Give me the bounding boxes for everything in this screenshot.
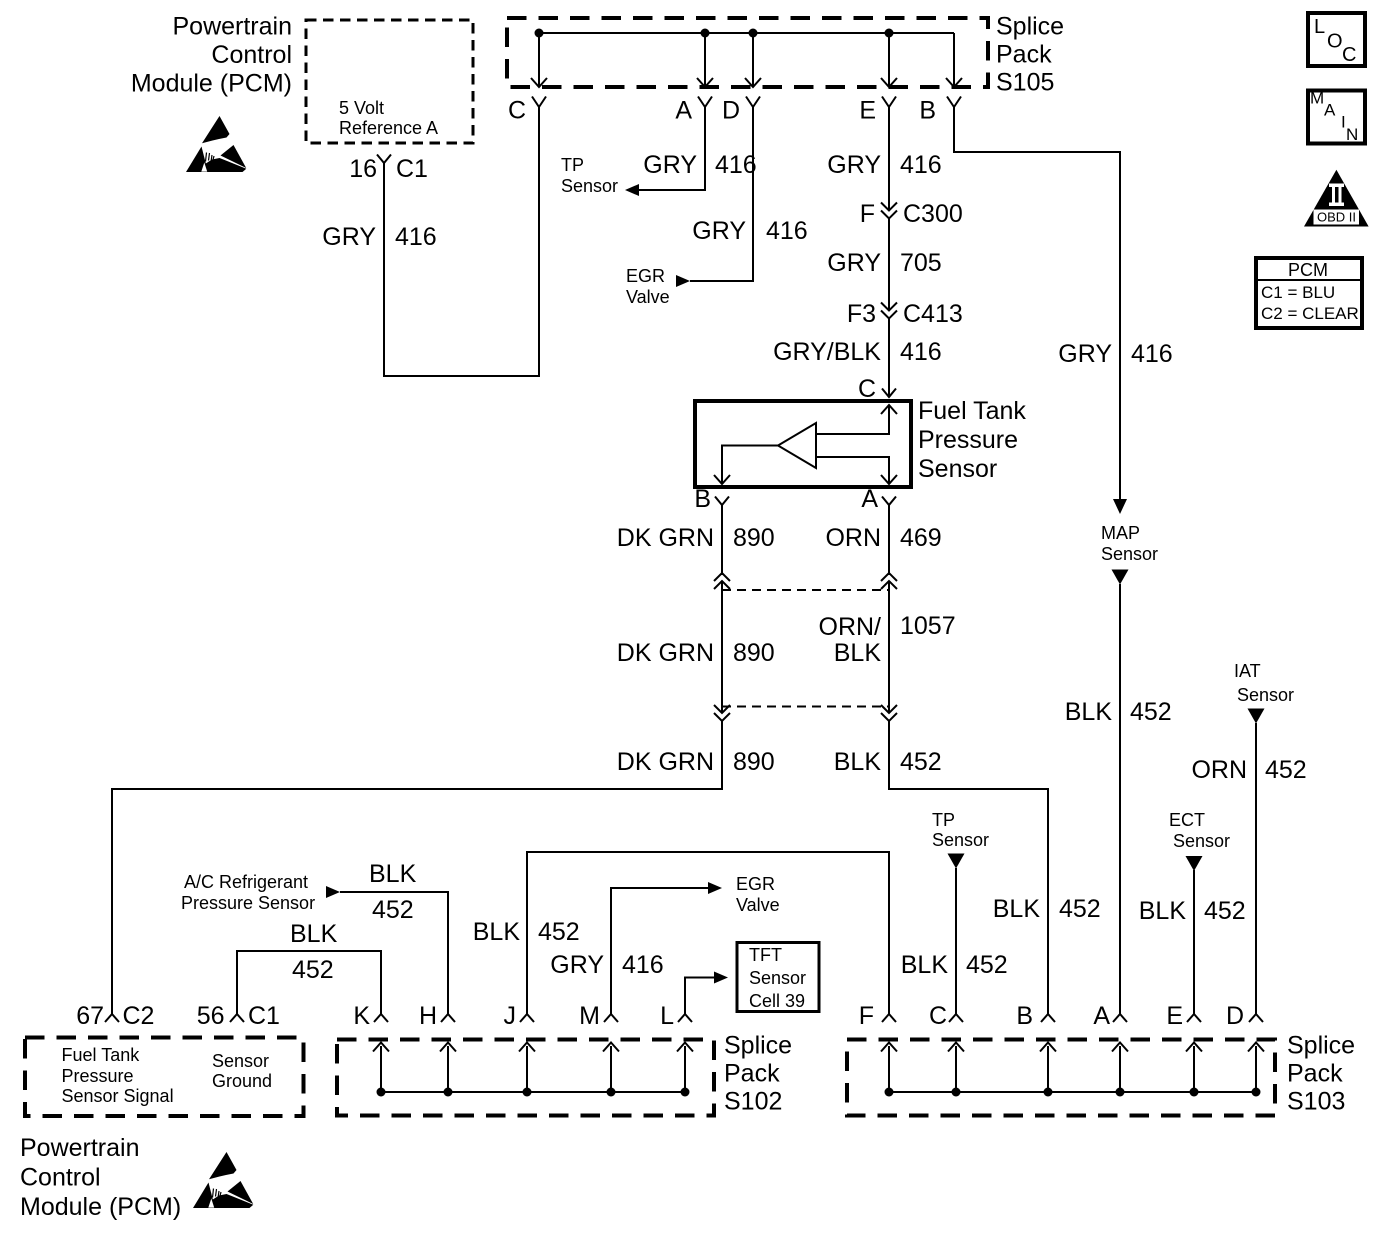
- svg-text:Powertrain: Powertrain: [20, 1134, 140, 1162]
- svg-text:Ground: Ground: [212, 1071, 272, 1091]
- svg-text:416: 416: [900, 338, 942, 366]
- svg-text:N: N: [1346, 125, 1358, 144]
- svg-text:452: 452: [1130, 698, 1172, 726]
- wire BLK 452 from S102 J to S103 F: [526, 851, 890, 1014]
- S102 pin M connector+letter: [579, 1002, 618, 1030]
- S103 junction dot D: [1252, 1088, 1261, 1097]
- module label: Powertrain Control Module (PCM) bottom: [20, 1134, 181, 1221]
- svg-text:O: O: [1327, 31, 1343, 53]
- label BLK 452 near S103 B: [993, 895, 1101, 923]
- wire GRY 705 from C300 to C413: [888, 218, 890, 311]
- svg-text:BLK: BLK: [1139, 897, 1187, 925]
- sensor internal wire to pin A: [816, 456, 897, 484]
- svg-text:5 Volt: 5 Volt: [339, 98, 384, 118]
- svg-text:705: 705: [900, 249, 942, 277]
- svg-text:Sensor: Sensor: [212, 1051, 269, 1071]
- svg-text:Pack: Pack: [1287, 1060, 1343, 1088]
- OBD II badge triangle: [1304, 170, 1369, 227]
- wire ORN 452 from IAT Sensor to S103 D: [1255, 723, 1257, 1014]
- svg-text:ORN: ORN: [825, 524, 881, 552]
- S103 junction dot E: [1190, 1088, 1199, 1097]
- svg-text:EGR: EGR: [736, 874, 775, 894]
- sensor internal amplifier triangle: [778, 423, 816, 468]
- svg-text:Control: Control: [211, 41, 292, 69]
- PCM 5 Volt Reference A dashed box: [306, 20, 473, 143]
- svg-text:BLK: BLK: [473, 918, 521, 946]
- S102 internal stem+arrow K: [373, 1043, 389, 1093]
- svg-text:D: D: [722, 97, 740, 125]
- svg-text:A: A: [675, 97, 692, 125]
- svg-text:E: E: [1166, 1002, 1183, 1030]
- svg-text:Sensor: Sensor: [1237, 685, 1294, 705]
- svg-text:C1: C1: [396, 155, 428, 183]
- label BLK 452 on TP ground wire: [901, 951, 1008, 979]
- PCM pin 16 C1 connector: [349, 155, 428, 184]
- ESD sensitive symbol (bottom PCM): [193, 1152, 253, 1208]
- svg-text:56: 56: [197, 1002, 225, 1030]
- svg-text:B: B: [1016, 1002, 1033, 1030]
- svg-text:C2 = CLEAR: C2 = CLEAR: [1261, 304, 1359, 323]
- label GRY 416 on S102 M wire: [550, 951, 663, 979]
- svg-text:416: 416: [1131, 340, 1173, 368]
- svg-text:Splice: Splice: [1287, 1032, 1355, 1060]
- svg-text:GRY: GRY: [827, 249, 881, 277]
- svg-text:Valve: Valve: [736, 895, 780, 915]
- label: EGR Valve (bottom): [736, 874, 780, 915]
- wire GRY 416 from S105 E to C300: [888, 107, 890, 210]
- svg-text:K: K: [353, 1002, 370, 1030]
- LOC badge box: [1308, 13, 1365, 66]
- S103 pin A connector+letter: [1093, 1002, 1127, 1030]
- S102 pin K connector+letter: [353, 1002, 388, 1030]
- S105 junction dot E: [885, 29, 894, 38]
- svg-text:TP: TP: [561, 155, 584, 175]
- svg-text:A/C Refrigerant: A/C Refrigerant: [184, 872, 308, 892]
- MAIN badge box: [1308, 89, 1365, 145]
- in-line connector C300 pin F: [860, 200, 963, 228]
- TFT Sensor Cell 39 box: [737, 943, 819, 1012]
- label BLK 452 on MAP ground wire: [1065, 698, 1172, 726]
- S105 pin C connector+letter: [508, 97, 546, 125]
- S102 pin H connector+letter: [419, 1002, 455, 1030]
- wire DK GRN 890 middle segment: [721, 581, 723, 713]
- svg-text:B: B: [694, 485, 711, 513]
- svg-text:Pack: Pack: [996, 41, 1052, 69]
- svg-text:Splice: Splice: [724, 1032, 792, 1060]
- svg-text:452: 452: [1059, 895, 1101, 923]
- svg-text:GRY: GRY: [692, 217, 746, 245]
- svg-text:Pressure: Pressure: [62, 1066, 134, 1086]
- label BLK 452 on S102 J wire: [473, 918, 580, 946]
- S102 junction dot J: [523, 1088, 532, 1097]
- svg-text:Sensor: Sensor: [932, 830, 989, 850]
- svg-text:469: 469: [900, 524, 942, 552]
- svg-text:Valve: Valve: [626, 287, 670, 307]
- svg-text:S102: S102: [724, 1088, 782, 1116]
- label GRY 705: [827, 249, 941, 277]
- wire DK GRN 890 to PCM 67 C2: [111, 721, 723, 1014]
- PCM pin 67 C2 connector: [76, 1002, 154, 1030]
- svg-text:A: A: [1324, 101, 1336, 120]
- svg-text:M: M: [1310, 89, 1324, 108]
- svg-text:BLK: BLK: [369, 860, 417, 888]
- svg-text:452: 452: [966, 951, 1008, 979]
- svg-text:1057: 1057: [900, 612, 956, 640]
- svg-text:Module (PCM): Module (PCM): [20, 1193, 181, 1221]
- module label: Powertrain Control Module (PCM) top: [131, 13, 292, 98]
- svg-text:Cell 39: Cell 39: [749, 991, 805, 1011]
- svg-text:Pressure Sensor: Pressure Sensor: [181, 893, 315, 913]
- svg-text:Sensor: Sensor: [561, 176, 618, 196]
- svg-text:BLK: BLK: [834, 748, 882, 776]
- S102 junction dot M: [607, 1088, 616, 1097]
- label BLK 452 on A/C wire: [369, 860, 417, 924]
- S105 junction dot D: [749, 29, 758, 38]
- svg-text:416: 416: [900, 151, 942, 179]
- S102 junction dot L: [681, 1088, 690, 1097]
- svg-text:L: L: [1314, 16, 1325, 38]
- svg-text:TP: TP: [932, 810, 955, 830]
- S105 junction dot C: [535, 29, 544, 38]
- svg-text:890: 890: [733, 748, 775, 776]
- svg-text:C: C: [929, 1002, 947, 1030]
- svg-text:C: C: [1342, 44, 1356, 66]
- svg-text:F3: F3: [847, 300, 876, 328]
- label ORN/BLK 1057: [819, 612, 956, 667]
- svg-text:GRY: GRY: [643, 151, 697, 179]
- svg-text:EGR: EGR: [626, 266, 665, 286]
- wire GRY 416 from S102 M to EGR Valve: [610, 888, 708, 1014]
- S103 internal stem+arrow F: [881, 1043, 897, 1093]
- wire GRY 416 from PCM 16 C1 to splice pack S105 C: [383, 107, 540, 377]
- svg-text:C: C: [508, 97, 526, 125]
- in-line connector pass-through on ORN/BLK wire (lower): [881, 705, 897, 713]
- S102 pin L connector+letter: [660, 1002, 692, 1030]
- S103 internal stem+arrow A: [1112, 1043, 1128, 1093]
- connector dashed link line (lower): [722, 706, 889, 708]
- arrow to TFT Sensor box: [714, 972, 728, 984]
- svg-text:Splice: Splice: [996, 13, 1064, 41]
- svg-text:F: F: [860, 200, 875, 228]
- S103 pin D connector+letter: [1226, 1002, 1263, 1030]
- svg-text:67: 67: [76, 1002, 104, 1030]
- S105 pin E connector+letter: [859, 97, 896, 125]
- svg-text:M: M: [579, 1002, 600, 1030]
- svg-text:F: F: [859, 1002, 874, 1030]
- wire GRY 416 from S105 B to MAP Sensor: [953, 107, 1120, 500]
- svg-text:S105: S105: [996, 69, 1054, 97]
- svg-text:GRY/BLK: GRY/BLK: [773, 338, 881, 366]
- label: ECT Sensor: [1169, 810, 1230, 851]
- svg-text:Fuel Tank: Fuel Tank: [62, 1045, 141, 1065]
- S103 internal stem+arrow B: [1040, 1043, 1056, 1093]
- S105 internal stem+arrow C: [531, 33, 547, 87]
- svg-text:B: B: [919, 97, 936, 125]
- wire GRY 416 from S105 D to EGR Valve: [690, 107, 753, 282]
- wire BLK 452 from connector to splice pack S103 B: [888, 721, 1048, 1014]
- svg-text:Sensor: Sensor: [749, 968, 806, 988]
- S102 internal bus wire: [381, 1091, 685, 1093]
- svg-text:Pressure: Pressure: [918, 426, 1018, 454]
- svg-text:416: 416: [766, 217, 808, 245]
- S103 junction dot B: [1044, 1088, 1053, 1097]
- label: IAT Sensor: [1234, 661, 1294, 705]
- sensor internal wire C input: [816, 405, 897, 435]
- label BLK 452 on ECT wire: [1139, 897, 1246, 925]
- svg-text:DK GRN: DK GRN: [617, 524, 714, 552]
- svg-text:890: 890: [733, 639, 775, 667]
- S105 internal bus wire: [539, 32, 954, 34]
- svg-text:416: 416: [715, 151, 757, 179]
- svg-text:GRY: GRY: [550, 951, 604, 979]
- svg-text:A: A: [861, 485, 878, 513]
- S102 pin J connector+letter: [504, 1002, 535, 1030]
- S102 junction dot H: [444, 1088, 453, 1097]
- label: TFT Sensor Cell 39: [749, 945, 806, 1011]
- svg-text:PCM: PCM: [1288, 260, 1328, 280]
- svg-text:S103: S103: [1287, 1088, 1345, 1116]
- sensor pin A connector+letter: [861, 485, 896, 513]
- svg-text:J: J: [504, 1002, 517, 1030]
- label: EGR Valve (top): [626, 266, 670, 307]
- label: Splice Pack S105: [996, 13, 1064, 97]
- wire DK GRN 890 from sensor B downward: [721, 505, 723, 575]
- svg-text:452: 452: [1204, 897, 1246, 925]
- svg-text:Pack: Pack: [724, 1060, 780, 1088]
- svg-text:890: 890: [733, 524, 775, 552]
- PCM connector legend box: [1254, 258, 1362, 328]
- S105 pin B connector+letter: [919, 97, 961, 125]
- in-line connector pass-through on DK GRN wire (lower): [714, 705, 730, 713]
- svg-text:BLK: BLK: [993, 895, 1041, 923]
- label DK GRN 890 (row 2): [617, 639, 775, 667]
- connector dashed link line (upper): [722, 589, 889, 591]
- S105 pin D connector+letter: [722, 97, 760, 125]
- arrow to TP Sensor (off-page, left): [625, 184, 639, 196]
- svg-text:Sensor: Sensor: [1173, 831, 1230, 851]
- wire BLK 452 from PCM 56 C1 to S102 K: [236, 950, 382, 1014]
- sensor pin B connector+letter: [694, 485, 729, 513]
- source triangle from IAT Sensor: [1248, 709, 1265, 724]
- label BLK 452 on 56-K wire: [290, 920, 338, 984]
- label GRY 416 on S105-A wire: [643, 151, 756, 179]
- svg-text:16: 16: [349, 155, 377, 183]
- arrow from A/C Refrigerant Pressure Sensor (pointing right): [326, 886, 340, 898]
- svg-text:BLK: BLK: [901, 951, 949, 979]
- source triangle from TP Sensor: [948, 854, 965, 869]
- S102 internal stem+arrow L: [677, 1043, 693, 1093]
- label: Sensor Ground: [212, 1051, 272, 1091]
- svg-text:L: L: [660, 1002, 674, 1030]
- svg-text:452: 452: [538, 918, 580, 946]
- label GRY 416 on MAP wire: [1058, 340, 1172, 368]
- label GRY 416 on S105-E wire: [827, 151, 941, 179]
- svg-text:Fuel Tank: Fuel Tank: [918, 397, 1026, 425]
- S103 pin C connector+letter: [929, 1002, 963, 1030]
- svg-text:A: A: [1093, 1002, 1110, 1030]
- svg-text:Sensor Signal: Sensor Signal: [62, 1086, 174, 1106]
- label: Fuel Tank Pressure Sensor: [918, 397, 1026, 483]
- S103 pin E connector+letter: [1166, 1002, 1201, 1030]
- S102 internal stem+arrow H: [440, 1043, 456, 1093]
- svg-text:C413: C413: [903, 300, 963, 328]
- svg-text:DK GRN: DK GRN: [617, 639, 714, 667]
- label: Splice Pack S103: [1287, 1032, 1355, 1116]
- S103 internal bus wire: [889, 1091, 1256, 1093]
- label: TP Sensor (top): [561, 155, 618, 196]
- label GRY 416 on S105-D wire: [692, 217, 807, 245]
- svg-text:C: C: [858, 375, 876, 403]
- wire BLK 452 from TP Sensor to S103 C: [955, 868, 957, 1014]
- in-line connector pass-through on DK GRN wire (upper): [714, 581, 730, 589]
- svg-text:D: D: [1226, 1002, 1244, 1030]
- svg-text:BLK: BLK: [1065, 698, 1113, 726]
- svg-text:GRY: GRY: [1058, 340, 1112, 368]
- arrow to EGR Valve (bottom, right): [708, 882, 722, 894]
- S105 junction dot A: [701, 29, 710, 38]
- arrow from EGR Valve (off-page, pointing right): [676, 275, 690, 287]
- source triangle from ECT Sensor: [1186, 856, 1203, 871]
- svg-text:ORN/: ORN/: [819, 613, 882, 641]
- S103 pin B connector+letter: [1016, 1002, 1055, 1030]
- svg-text:BLK: BLK: [290, 920, 338, 948]
- arrow to MAP Sensor (solid, down): [1113, 499, 1127, 514]
- wire ORN/BLK 1057 middle segment: [888, 581, 890, 713]
- svg-text:452: 452: [372, 896, 414, 924]
- S102 internal stem+arrow M: [603, 1043, 619, 1093]
- svg-text:TFT: TFT: [749, 945, 782, 965]
- label GRY/BLK 416: [773, 338, 942, 366]
- label DK GRN 890 (row 1): [617, 524, 775, 552]
- wire GRY/BLK 416 from C413 to sensor pin C: [888, 318, 890, 397]
- sensor pin C connector+letter: [858, 375, 896, 403]
- svg-text:BLK: BLK: [834, 639, 882, 667]
- S105 internal stem+arrow E: [881, 33, 897, 87]
- PCM pin 56 C1 connector: [197, 1002, 280, 1030]
- label ORN 469: [825, 524, 941, 552]
- svg-text:416: 416: [622, 951, 664, 979]
- svg-text:Control: Control: [20, 1164, 101, 1192]
- wire ORN 469 from sensor A downward: [888, 505, 890, 575]
- label: 5 Volt Reference A: [339, 98, 438, 138]
- svg-text:GRY: GRY: [827, 151, 881, 179]
- svg-text:E: E: [859, 97, 876, 125]
- svg-text:452: 452: [292, 956, 334, 984]
- label DK GRN 890 (row 3): [617, 748, 775, 776]
- ESD sensitive symbol (top PCM): [186, 116, 246, 172]
- svg-text:Module (PCM): Module (PCM): [131, 70, 292, 98]
- splice pack S105 dashed box: [507, 18, 988, 87]
- svg-text:ORN: ORN: [1191, 756, 1247, 784]
- S103 junction dot A: [1116, 1088, 1125, 1097]
- S102 junction dot K: [377, 1088, 386, 1097]
- S102 internal stem+arrow J: [519, 1043, 535, 1093]
- S103 internal stem+arrow E: [1186, 1043, 1202, 1093]
- S105 internal stem+arrow A: [697, 33, 713, 87]
- label: A/C Refrigerant Pressure Sensor: [181, 872, 315, 913]
- PCM bottom dashed box: [25, 1038, 304, 1117]
- splice pack S103 dashed box: [847, 1040, 1275, 1116]
- S103 junction dot C: [952, 1088, 961, 1097]
- svg-text:MAP: MAP: [1101, 523, 1140, 543]
- svg-text:GRY: GRY: [322, 223, 376, 251]
- svg-text:Sensor: Sensor: [1101, 544, 1158, 564]
- svg-text:ECT: ECT: [1169, 810, 1205, 830]
- label GRY 416 on PCM 16 wire: [322, 223, 436, 251]
- S105 internal stem+arrow D: [745, 33, 761, 87]
- svg-text:C1 = BLU: C1 = BLU: [1261, 283, 1335, 302]
- svg-text:Reference A: Reference A: [339, 118, 438, 138]
- label BLK 452 (row 3): [834, 748, 942, 776]
- svg-text:H: H: [419, 1002, 437, 1030]
- label ORN 452: [1191, 756, 1306, 784]
- wire BLK 452 from ECT Sensor to S103 E: [1193, 870, 1195, 1014]
- svg-text:C1: C1: [248, 1002, 280, 1030]
- wire BLK 452 from MAP Sensor to S103 A: [1119, 584, 1121, 1014]
- svg-text:416: 416: [395, 223, 437, 251]
- label: MAP Sensor: [1101, 523, 1158, 564]
- S103 internal stem+arrow D: [1248, 1043, 1264, 1093]
- svg-text:Powertrain: Powertrain: [173, 13, 293, 41]
- S105 pin A connector+letter: [675, 97, 712, 125]
- wire GRY 416 from S105 A to TP Sensor: [639, 107, 705, 191]
- wire from S102 L to TFT Sensor: [684, 978, 714, 1015]
- svg-text:OBD II: OBD II: [1317, 210, 1356, 225]
- svg-text:C2: C2: [123, 1002, 155, 1030]
- S103 junction dot F: [885, 1088, 894, 1097]
- svg-text:DK GRN: DK GRN: [617, 748, 714, 776]
- in-line connector pass-through on ORN wire (upper): [881, 581, 897, 589]
- svg-text:452: 452: [1265, 756, 1307, 784]
- Fuel Tank Pressure Sensor box: [695, 401, 911, 487]
- S105 internal stem+arrow B: [946, 33, 962, 87]
- label: Splice Pack S102: [724, 1032, 792, 1116]
- svg-text:Sensor: Sensor: [918, 455, 997, 483]
- wire BLK 452 from A/C Refrigerant Pressure Sensor to S102 H: [340, 891, 449, 1014]
- label: TP Sensor (bottom): [932, 810, 989, 850]
- in-line connector C413 pin F3: [847, 300, 963, 328]
- svg-text:452: 452: [900, 748, 942, 776]
- source triangle from MAP Sensor: [1112, 570, 1129, 585]
- S103 pin F connector+letter: [859, 1002, 896, 1030]
- sensor internal wire to pin B: [714, 445, 778, 485]
- svg-text:C300: C300: [903, 200, 963, 228]
- S103 internal stem+arrow C: [948, 1043, 964, 1093]
- svg-text:IAT: IAT: [1234, 661, 1261, 681]
- splice pack S102 dashed box: [337, 1040, 714, 1116]
- label: Fuel Tank Pressure Sensor Signal: [62, 1045, 174, 1106]
